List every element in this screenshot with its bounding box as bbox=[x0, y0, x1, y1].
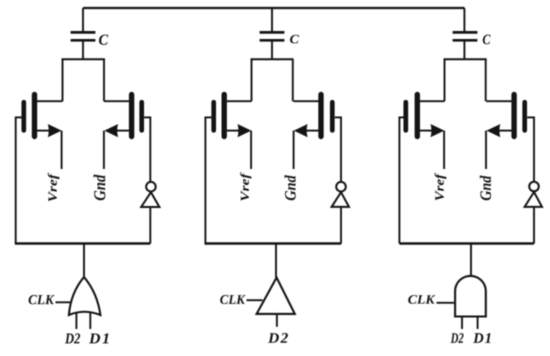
transistor M4 (block 2 right) bbox=[293, 95, 341, 138]
capacitor C (block 1) bbox=[71, 32, 96, 40]
transistor M5 (block 3 left) bbox=[399, 95, 444, 138]
net label Vref (block 1) bbox=[48, 173, 60, 202]
wire: bottom rail (block 2) bbox=[205, 242, 342, 244]
wire: top bar (drain bus, block 3) bbox=[444, 58, 487, 60]
wire: CLK into OR gate U4 bbox=[56, 301, 71, 303]
net label Vref (block 3) bbox=[435, 173, 447, 201]
transistor M2 (block 1 right) bbox=[104, 95, 150, 138]
transistor M3 (block 2 left) bbox=[205, 95, 251, 138]
pin label D1 (block 1) bbox=[89, 333, 109, 343]
wire: bottom rail down to AND gate output bbox=[470, 244, 472, 278]
wire: M5 source down to Vref stub bbox=[443, 131, 445, 169]
pin label CLK (block 2) bbox=[220, 295, 245, 304]
value label C (block 3) bbox=[483, 35, 491, 45]
wire: inverter U3 output down to bottom rail bbox=[533, 207, 535, 244]
wire: left drain drop (block 1) bbox=[62, 59, 64, 101]
wire: capacitor C to top bar bbox=[82, 42, 84, 60]
wire: OR gate input stub D2 bbox=[75, 313, 77, 329]
wire: OR gate input stub D1 bbox=[89, 313, 91, 329]
wire: bottom rail down to OR gate output bbox=[83, 244, 85, 278]
wire: block 2 right gate wire down to inverter bubble bbox=[340, 117, 342, 182]
wire: top clock rail bbox=[83, 7, 464, 9]
inverter U3 (block 3) bbox=[525, 182, 542, 207]
wire: right drain drop (block 3) bbox=[485, 59, 487, 101]
wire: inverter U1 output down to bottom rail bbox=[149, 207, 151, 244]
wire: block 1 left gate wire down to bottom rail bbox=[15, 117, 17, 244]
wire: right drain drop (block 2) bbox=[292, 59, 294, 101]
net label Gnd (block 3) bbox=[480, 175, 491, 200]
net label Gnd (block 2) bbox=[284, 175, 295, 200]
inverter U2 (block 2) bbox=[332, 182, 349, 207]
wire: bottom rail (block 1) bbox=[15, 242, 151, 244]
buffer U5 (block 2) bbox=[257, 278, 295, 314]
AND gate U6 (block 3) bbox=[455, 276, 486, 317]
capacitor C (block 2) bbox=[260, 32, 285, 40]
net label Vref (block 2) bbox=[240, 172, 251, 201]
pin label D2 (block 2) bbox=[268, 333, 288, 343]
wire: M1 source down to Vref stub bbox=[61, 131, 63, 169]
wire: right drain drop (block 1) bbox=[103, 59, 105, 101]
wire: block 1 right gate wire down to inverter bubble bbox=[149, 117, 151, 182]
transistor M1 (block 1 left) bbox=[16, 95, 63, 138]
wire: CLK into buffer U5 bbox=[247, 299, 263, 301]
capacitor C (block 3) bbox=[453, 32, 478, 40]
pin label D2 (block 3) bbox=[451, 333, 464, 343]
pin label D1 (block 3) bbox=[473, 333, 490, 343]
net label Gnd (block 1) bbox=[94, 174, 106, 200]
pin label CLK (block 1) bbox=[29, 295, 55, 304]
wire: block 2 left gate wire down to bottom rail bbox=[204, 117, 206, 244]
wire: rail to capacitor C1 top bbox=[82, 8, 84, 31]
wire: capacitor C to top bar bbox=[271, 42, 273, 60]
wire: left drain drop (block 3) bbox=[444, 59, 446, 101]
transistor M6 (block 3 right) bbox=[486, 95, 534, 138]
wire: bottom rail down to buffer output bbox=[275, 244, 277, 278]
wire: top bar (drain bus, block 2) bbox=[251, 58, 294, 60]
wire: M6 source down to Gnd stub bbox=[485, 131, 487, 169]
wire: block 3 left gate wire down to bottom rail bbox=[398, 117, 400, 244]
wire: rail to capacitor C2 top bbox=[271, 8, 273, 31]
pin label D2 (block 1) bbox=[65, 333, 80, 343]
pin label CLK (block 3) bbox=[408, 295, 435, 304]
value label C (block 1) bbox=[99, 35, 108, 45]
wire: M2 source down to Gnd stub bbox=[103, 131, 105, 169]
wire: left drain drop (block 2) bbox=[251, 59, 253, 101]
wire: bottom rail (block 3) bbox=[399, 242, 534, 244]
OR gate U4 (block 1) bbox=[69, 277, 101, 315]
wire: M4 source down to Gnd stub bbox=[293, 131, 295, 169]
wire: CLK into AND gate U6 bbox=[437, 302, 456, 304]
wire: M3 source down to Vref stub bbox=[250, 131, 252, 169]
wire: capacitor C to top bar bbox=[463, 42, 465, 60]
wire: block 3 right gate wire down to inverter bubble bbox=[533, 117, 535, 182]
wire: AND gate input stub D1 bbox=[477, 317, 479, 330]
wire: inverter U2 output down to bottom rail bbox=[340, 207, 342, 244]
wire: rail to capacitor C3 top bbox=[463, 8, 465, 31]
inverter U1 (block 1) bbox=[141, 182, 159, 207]
wire: top bar (drain bus, block 1) bbox=[62, 58, 106, 60]
value label C (block 2) bbox=[290, 35, 299, 44]
wire: buffer input stub D2 bbox=[276, 314, 278, 327]
wire: AND gate input stub D2 bbox=[461, 317, 463, 330]
